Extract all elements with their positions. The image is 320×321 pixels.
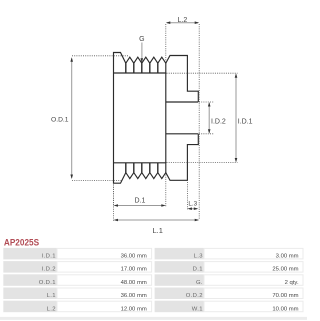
svg-text:L.2: L.2 [47,306,56,312]
svg-text:2 qty.: 2 qty. [285,280,299,286]
svg-text:G: G [139,36,144,43]
svg-text:I.D.2: I.D.2 [211,119,226,126]
svg-text:O.D.1: O.D.1 [51,116,69,123]
svg-text:10.00 mm: 10.00 mm [272,306,298,312]
svg-text:AP2025S: AP2025S [4,236,39,247]
svg-text:L.1: L.1 [152,226,162,235]
svg-text:36.00 mm: 36.00 mm [121,254,147,260]
svg-text:3.00 mm: 3.00 mm [276,254,299,260]
svg-text:25.00 mm: 25.00 mm [272,267,298,273]
svg-text:I.D.2: I.D.2 [42,267,56,273]
svg-text:O.D.2: O.D.2 [186,293,203,299]
svg-text:70.00 mm: 70.00 mm [272,293,298,299]
svg-text:L.3: L.3 [194,254,204,260]
svg-text:I.D.1: I.D.1 [238,119,253,126]
svg-text:O.D.1: O.D.1 [39,280,56,286]
svg-text:D.1: D.1 [193,267,203,273]
svg-text:I.D.1: I.D.1 [42,254,56,260]
svg-text:36.00 mm: 36.00 mm [121,293,147,299]
svg-text:D.1: D.1 [135,197,146,204]
svg-text:48.00 mm: 48.00 mm [121,280,147,286]
svg-text:L.3: L.3 [188,201,197,208]
svg-text:L.2: L.2 [178,17,188,24]
svg-text:12.00 mm: 12.00 mm [121,306,147,312]
svg-text:W.1: W.1 [192,306,203,312]
svg-text:G.: G. [196,280,203,286]
svg-text:17.00 mm: 17.00 mm [121,267,147,273]
svg-text:L.1: L.1 [47,293,56,299]
